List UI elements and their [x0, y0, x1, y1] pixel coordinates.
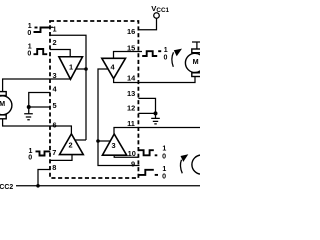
- svg-text:1: 1: [164, 47, 168, 54]
- svg-text:0: 0: [27, 51, 31, 58]
- svg-text:0: 0: [162, 154, 166, 161]
- wire pin10 input 3A: [114, 155, 138, 157]
- svg-text:11: 11: [127, 119, 135, 128]
- svg-text:10: 10: [128, 149, 136, 158]
- wire pin4 ground: [29, 93, 50, 108]
- svg-text:15: 15: [127, 44, 135, 53]
- wire pin6 output 2Y to motor M1: [3, 119, 72, 134]
- wire pin15 input 4A: [114, 52, 143, 59]
- op-amp driver 1: [59, 57, 83, 80]
- wire enable tap driver 3: [98, 140, 110, 142]
- wire pin5 ground: [29, 106, 50, 108]
- svg-text:1: 1: [162, 166, 166, 173]
- svg-text:2: 2: [53, 38, 57, 47]
- svg-text:CC2: CC2: [0, 184, 13, 191]
- motor M1 left: [0, 92, 12, 119]
- wire VCC2 rail: [16, 185, 200, 187]
- waveform at pin15: [142, 51, 161, 56]
- wire pin2 input 1A: [50, 50, 70, 57]
- waveform at pin2: [34, 49, 48, 54]
- node junction dot enable 1: [84, 67, 88, 71]
- op-amp driver 3: [102, 134, 126, 155]
- svg-text:4: 4: [111, 62, 116, 71]
- wire motor M2 top feed: [192, 42, 200, 49]
- svg-text:3: 3: [112, 141, 116, 150]
- wire pin11 output 3Y to motor M2: [114, 128, 200, 135]
- node junction dot VCC2: [36, 184, 40, 188]
- node junction dot pins4-5 ground: [27, 105, 31, 109]
- motor M2 right: [185, 49, 204, 77]
- svg-text:M: M: [193, 57, 199, 66]
- svg-text:9: 9: [131, 159, 135, 168]
- svg-text:0: 0: [28, 154, 32, 161]
- IC dashed box U1: [50, 21, 138, 178]
- rotation arrow motor M3: [180, 154, 188, 173]
- wire pin1 to enable rail 1,2EN: [47, 27, 86, 140]
- ground symbol left: [24, 107, 33, 120]
- svg-text:12: 12: [127, 103, 135, 112]
- svg-text:1: 1: [69, 62, 73, 71]
- op-amp driver 4: [102, 58, 126, 78]
- svg-text:3: 3: [53, 71, 57, 80]
- svg-text:6: 6: [53, 121, 57, 130]
- wire pin3 output 1Y to motor M1: [3, 79, 71, 92]
- rotation arrow motor M2: [172, 49, 182, 67]
- svg-text:1: 1: [28, 43, 32, 50]
- svg-text:CC1: CC1: [156, 7, 169, 14]
- wire pin12 ground: [138, 112, 155, 114]
- svg-text:0: 0: [164, 54, 168, 61]
- svg-text:1: 1: [53, 25, 57, 34]
- wire enable tap driver 1: [76, 68, 86, 70]
- svg-text:M: M: [0, 99, 5, 108]
- wire pin14 output 4Y to motor M2: [114, 77, 195, 83]
- wire pin9 enable rail 3,4EN: [98, 69, 140, 166]
- wire pin8 VCC2: [38, 170, 50, 186]
- svg-text:7: 7: [52, 148, 56, 157]
- svg-text:13: 13: [127, 89, 135, 98]
- svg-text:0: 0: [27, 30, 31, 37]
- svg-text:4: 4: [53, 85, 58, 94]
- svg-text:2: 2: [69, 140, 73, 149]
- svg-text:5: 5: [53, 101, 57, 110]
- svg-text:1: 1: [28, 23, 32, 30]
- VCC1 terminal circle: [154, 13, 160, 19]
- ground symbol right: [151, 113, 160, 124]
- waveform at pin9: [138, 170, 158, 175]
- svg-text:14: 14: [127, 73, 136, 82]
- svg-text:16: 16: [127, 27, 135, 36]
- op-amp driver 2: [60, 134, 84, 155]
- motor M3 bottom right clipped: [192, 155, 211, 174]
- VCC1 label: [151, 4, 169, 14]
- svg-text:1: 1: [162, 145, 166, 152]
- pin number labels and text: [0, 0, 200, 200]
- wire pin16 to VCC1 terminal: [138, 18, 156, 30]
- wire enable tap driver 2: [75, 139, 86, 141]
- wire pin7 input 2A: [50, 155, 72, 161]
- waveform at pin10: [138, 150, 157, 155]
- VCC2 label: [0, 182, 13, 191]
- waveform at pin7: [36, 151, 51, 155]
- wire pin13 ground: [138, 98, 155, 113]
- svg-text:8: 8: [52, 163, 56, 172]
- svg-text:0: 0: [162, 174, 166, 181]
- node junction dot enable 3: [96, 139, 100, 143]
- waveform at pin1: [34, 28, 50, 33]
- node junction dot pins12-13 ground: [154, 111, 158, 115]
